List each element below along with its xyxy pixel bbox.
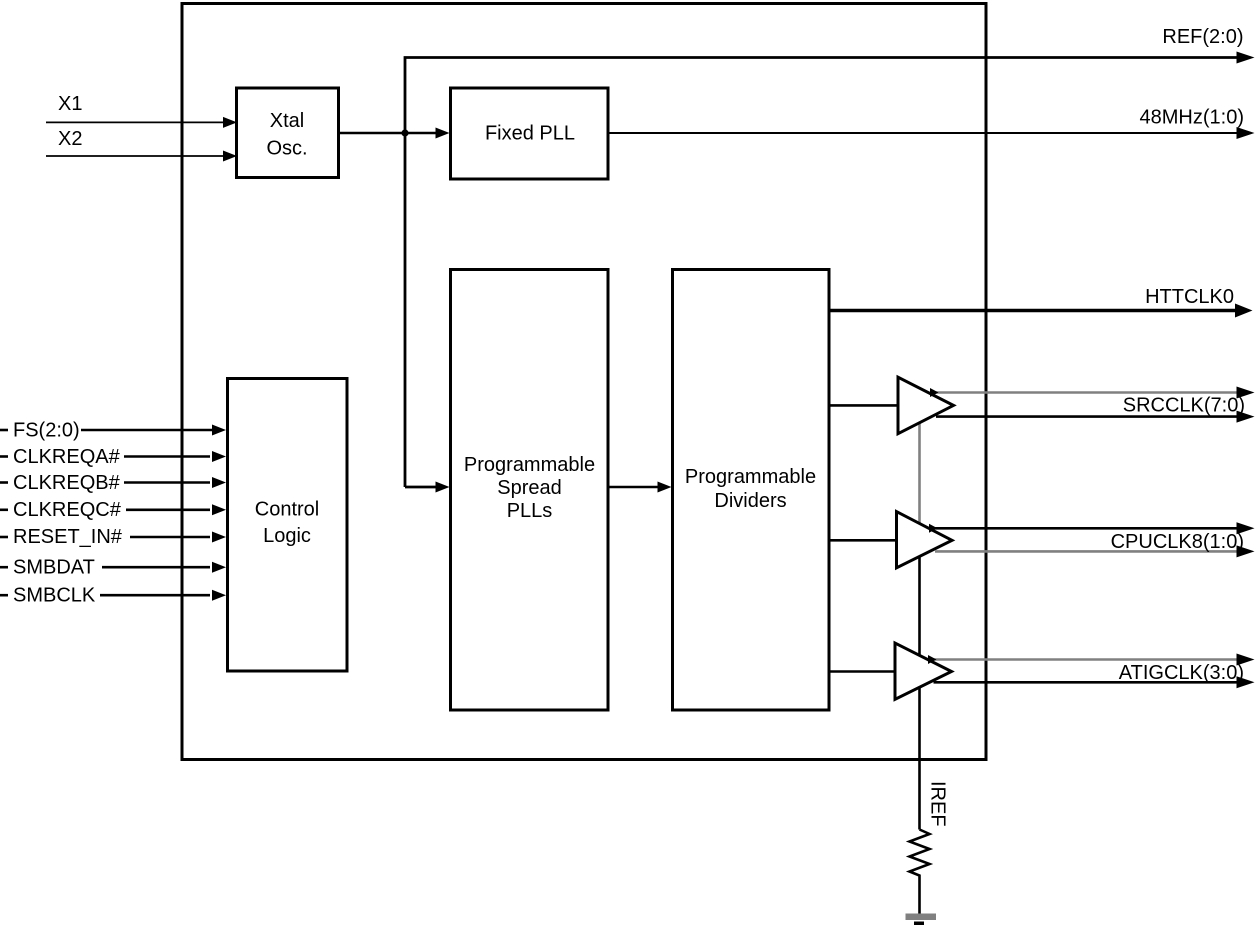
- svg-text:Spread: Spread: [497, 477, 562, 499]
- arrow nub at ATIGCLK bus start: [928, 655, 937, 664]
- buffer U1 SRCCLK output buffer: [898, 377, 954, 434]
- wire Dividers to ATIGCLK buffer: [829, 670, 897, 673]
- wire HTTCLK0 output: [829, 304, 1253, 318]
- wire ATIGCLK bus bottom: [934, 681, 1240, 684]
- arrow CPUCLK top: [1237, 522, 1255, 534]
- wire CLKREQA# input: [0, 446, 226, 468]
- svg-text:SRCCLK(7:0): SRCCLK(7:0): [1123, 394, 1245, 416]
- arrow nub at SRCCLK bus start: [930, 388, 939, 397]
- svg-text:CLKREQC#: CLKREQC#: [13, 499, 122, 521]
- wire bias line buffer1 to buffer2 (gray): [918, 415, 921, 530]
- arrow ATIGCLK bottom: [1237, 676, 1255, 688]
- svg-text:Xtal: Xtal: [270, 110, 304, 132]
- wire CPUCLK bus bottom (gray): [935, 550, 1239, 553]
- wire ATIGCLK bus top (gray): [930, 658, 1240, 661]
- svg-text:X1: X1: [58, 93, 82, 115]
- svg-text:Control: Control: [255, 499, 319, 521]
- svg-text:REF(2:0): REF(2:0): [1162, 26, 1243, 48]
- svg-text:Fixed PLL: Fixed PLL: [485, 123, 575, 145]
- svg-text:ATIGCLK(3:0): ATIGCLK(3:0): [1119, 662, 1244, 684]
- wire CPUCLK bus top: [931, 527, 1239, 530]
- arrow SRCCLK top: [1237, 387, 1255, 399]
- svg-text:SMBDAT: SMBDAT: [13, 556, 95, 578]
- buffer U2 CPUCLK output buffer: [897, 512, 953, 568]
- chip boundary box: [182, 4, 986, 760]
- wire Dividers to CPUCLK buffer: [829, 539, 897, 542]
- wire SRCCLK bus bottom: [936, 415, 1239, 418]
- wire CLKREQC# input: [0, 499, 226, 521]
- svg-text:SMBCLK: SMBCLK: [13, 584, 96, 606]
- wire SRCCLK bus top (gray): [932, 391, 1239, 394]
- svg-text:48MHz(1:0): 48MHz(1:0): [1140, 107, 1244, 129]
- block Xtal Osc: [237, 88, 339, 178]
- ground: [906, 914, 937, 925]
- wire SMBDAT input: [0, 556, 226, 578]
- svg-text:FS(2:0): FS(2:0): [13, 419, 80, 441]
- wire 48MHz output from Fixed PLL: [608, 127, 1255, 139]
- svg-text:Programmable: Programmable: [685, 466, 816, 488]
- wire CLKREQB# input: [0, 472, 226, 494]
- svg-text:Logic: Logic: [263, 525, 311, 547]
- block Fixed PLL: [451, 88, 609, 179]
- arrow SRCCLK bottom: [1237, 411, 1255, 423]
- svg-text:RESET_IN#: RESET_IN#: [13, 526, 123, 548]
- arrow CPUCLK bottom: [1237, 545, 1255, 557]
- svg-text:X2: X2: [58, 128, 82, 150]
- svg-text:Programmable: Programmable: [464, 454, 595, 476]
- wire Dividers to SRCCLK buffer: [829, 404, 897, 407]
- block Programmable Spread PLLs: [451, 270, 609, 711]
- svg-text:CPUCLK8(1:0): CPUCLK8(1:0): [1111, 531, 1244, 553]
- svg-text:Dividers: Dividers: [714, 490, 786, 512]
- arrow nub at CPUCLK bus start: [929, 524, 938, 533]
- svg-text:CLKREQA#: CLKREQA#: [13, 446, 121, 468]
- svg-text:HTTCLK0: HTTCLK0: [1145, 286, 1234, 308]
- svg-text:CLKREQB#: CLKREQB#: [13, 472, 121, 494]
- wire X2 input: [46, 128, 237, 162]
- wire X1 input: [46, 93, 237, 128]
- svg-text:IREF: IREF: [927, 781, 949, 827]
- wire Xtal Osc output to Fixed PLL: [337, 128, 450, 139]
- node junction at x=405 on Xtal output: [401, 129, 408, 136]
- wire FS(2:0) input: [0, 419, 226, 441]
- block Programmable Dividers: [673, 270, 830, 711]
- wire REF net: vertical riser and top run to REF(2:0): [405, 52, 1255, 488]
- wire Spread PLLs to Dividers: [608, 482, 672, 493]
- svg-text:PLLs: PLLs: [507, 500, 553, 522]
- block Control Logic: [228, 379, 348, 672]
- buffer U3 ATIGCLK output buffer: [895, 643, 952, 699]
- wire SMBCLK input: [0, 584, 226, 606]
- resistor R-IREF: [910, 830, 930, 915]
- arrow ATIGCLK top: [1237, 654, 1255, 666]
- wire bias line buffer2 to buffer3: [918, 550, 921, 662]
- wire RESET_IN# input: [0, 526, 226, 548]
- svg-text:Osc.: Osc.: [266, 138, 307, 160]
- wire feedback into Programmable Spread PLLs: [405, 482, 450, 493]
- wire bias line buffer3 to IREF pin: [918, 680, 921, 830]
